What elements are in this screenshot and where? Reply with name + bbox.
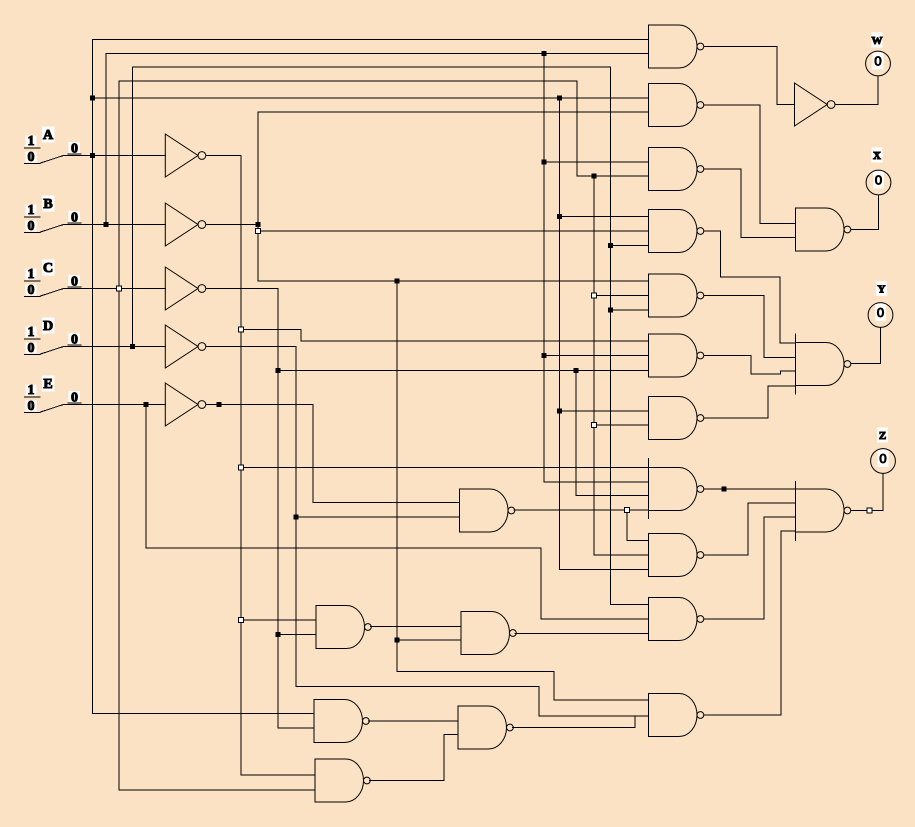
svg-text:0: 0	[879, 451, 886, 466]
node net C at U7 input	[592, 423, 597, 428]
output indicator X	[866, 170, 891, 195]
wire net D vertical x132	[132, 67, 134, 347]
wire net A vertical bus x92	[92, 40, 94, 714]
wire net notE from G5	[206, 405, 460, 503]
nand U2	[649, 84, 704, 127]
node net notD at U12 input	[294, 515, 299, 520]
svg-text:W: W	[872, 35, 883, 47]
node net notA at y620	[239, 618, 244, 623]
svg-text:D: D	[43, 319, 53, 334]
label Z	[877, 427, 888, 442]
wire net notC line y370 to U6 input 3	[278, 370, 649, 372]
svg-text:0: 0	[28, 219, 35, 234]
input switch D	[25, 318, 82, 357]
wire net B vertical x106	[105, 54, 107, 225]
node net notE dot	[217, 402, 222, 407]
wire net C vertical x594	[593, 176, 595, 555]
wire net notA bottom branch to U17 input 1	[241, 774, 315, 776]
wire net U6 output to U19 input 3	[704, 356, 796, 375]
inverter U21 (W output)	[795, 83, 836, 126]
wire net E vertical x541	[540, 548, 542, 619]
wire net E vertical x146	[145, 405, 147, 549]
nand U20 (Z output)	[796, 482, 851, 541]
node net notB at switch	[256, 222, 261, 227]
wire net B top line to U1 input 2	[106, 53, 649, 55]
label X	[872, 147, 883, 162]
node net notA at y329	[239, 327, 244, 332]
nand U4	[649, 210, 704, 253]
wire net notB branch to U14 input 2	[397, 639, 461, 641]
wire net notA branch to U13 input 1	[241, 619, 316, 621]
wire net B vertical x544	[543, 54, 545, 483]
node net D at switch	[130, 344, 135, 349]
svg-text:E: E	[43, 377, 52, 392]
wire net notD bottom jog	[296, 687, 539, 717]
wire net U5 output to U19 input 2	[704, 296, 796, 358]
wire net Z from U20 to indicator	[851, 473, 883, 510]
wire net notB bottom jog	[397, 672, 554, 701]
wire net notB vertical x397	[396, 281, 398, 672]
node net U8out dot	[722, 487, 727, 492]
nand U11	[649, 694, 704, 737]
wire net notA branch to U8 input 1	[241, 467, 649, 469]
output indicator Y	[868, 303, 893, 328]
wire net B branch to U8 input 2	[544, 481, 649, 483]
svg-text:1: 1	[28, 203, 35, 218]
nand U7	[649, 397, 704, 440]
wire net notC branch to U8 input 3	[576, 495, 649, 497]
inverter G3 (NOT C)	[165, 267, 206, 310]
wire net D branch to U10 input 1	[611, 604, 649, 606]
wire net A vertical x559	[559, 98, 561, 570]
wire net E branch to U10 input 2	[541, 618, 649, 620]
nand U13	[316, 606, 371, 649]
nand U9	[649, 534, 704, 577]
wire net D vertical x610	[610, 67, 612, 605]
svg-text:0: 0	[877, 305, 884, 320]
nand U15	[314, 700, 369, 743]
wire net U17 output to U16 input 2	[370, 735, 459, 781]
wire net C vertical x119	[118, 81, 120, 790]
node net A at U4 input	[557, 214, 562, 219]
node net notB at x397	[395, 279, 400, 284]
wire net W from U21 to indicator	[835, 76, 878, 105]
node net notC at x576	[574, 368, 579, 373]
label Y	[876, 281, 887, 296]
svg-text:Y: Y	[878, 284, 886, 296]
wire net U12 output branch to U9 input 1	[627, 510, 649, 541]
wire switch B to inverter G2	[64, 224, 166, 226]
svg-text:0: 0	[874, 54, 881, 69]
node net B at switch	[104, 222, 109, 227]
inverter G2 (NOT B)	[165, 203, 206, 246]
node net A at y98	[90, 96, 95, 101]
wire net U15 output to U16 input 1	[369, 720, 459, 722]
node net C at x594 top	[592, 174, 597, 179]
wire net A branch to U4 input 1	[560, 216, 649, 218]
wire net U13 output to U14 input 1	[371, 626, 462, 628]
nand U6	[649, 334, 704, 377]
svg-text:A: A	[43, 128, 54, 143]
wire net C branch to U9 input 2	[594, 554, 649, 556]
svg-text:1: 1	[28, 325, 35, 340]
wire net U1 output to U21	[704, 47, 795, 105]
inverter G5 (NOT E)	[165, 383, 206, 426]
wire net B branch to U6 input 2	[544, 355, 649, 357]
wire net U14 output to U10 input 3	[515, 633, 649, 635]
node net notC at U13 input	[276, 632, 281, 637]
nand U1	[649, 25, 704, 68]
node net A at U7 input	[557, 409, 562, 414]
nand U10	[649, 598, 704, 641]
svg-text:0: 0	[28, 399, 35, 414]
svg-text:Z: Z	[879, 430, 886, 442]
svg-text:0: 0	[28, 341, 35, 356]
node net C at switch	[117, 286, 122, 291]
wire net C branch to U5 input 2	[594, 295, 649, 297]
wire net notB to U11 input 1	[554, 699, 649, 701]
nand U12	[460, 489, 515, 532]
wire net U9 output to U20 input 2	[704, 503, 796, 555]
node net B at U3 input	[542, 160, 547, 165]
wire net notD to U11 input 2	[539, 715, 649, 717]
wire switch C to inverter G3	[64, 288, 166, 290]
wire net notB top line to U2 input 2	[258, 111, 649, 113]
inverter G4 (NOT D)	[165, 325, 206, 368]
wire net E line y548	[146, 547, 541, 549]
wire net notB from G2 to vertical x258	[206, 224, 258, 226]
wire net U16 output to U11 input 2 join	[513, 716, 636, 728]
wire net A top line to U1 input 1	[93, 39, 649, 41]
wire net notB line y231 to U4 input 2	[258, 230, 649, 232]
wire net C line to U3 input 2	[577, 175, 649, 177]
wire net A branch to U9 input 3	[560, 569, 649, 571]
wire net D top line y67	[133, 66, 611, 68]
wire net U12 output to U8 input 4	[514, 509, 649, 511]
wire net notC branch to U13 input 2	[278, 634, 316, 636]
input switch A	[25, 127, 82, 166]
wire net notB bottom line to U5 input 1	[258, 280, 649, 282]
wire switch A to inverter G1	[64, 155, 166, 157]
input switch B	[25, 196, 82, 235]
wire net U10 output to U20 input 3	[704, 517, 796, 619]
nand U16	[458, 706, 513, 749]
svg-text:0: 0	[28, 150, 35, 165]
wire net notB vertical x258	[257, 112, 259, 281]
input switch C	[25, 260, 82, 299]
node net B at x544 top	[542, 51, 547, 56]
wire net A line y98 to U2 input 1	[93, 97, 649, 99]
wire net U4 output to U19 input 1	[704, 231, 796, 343]
svg-text:1: 1	[28, 383, 35, 398]
node net E at switch	[144, 402, 149, 407]
wire net notD from G4 to vertical x296	[206, 346, 296, 348]
node net U12out tap	[625, 508, 630, 513]
wire net B branch to U3 input 1	[544, 161, 649, 163]
svg-text:0: 0	[28, 283, 35, 298]
inverter G1 (NOT A)	[165, 134, 206, 177]
wire net A branch to U7 input 1	[560, 410, 649, 412]
wire net notC vertical x278	[277, 289, 279, 729]
svg-text:C: C	[43, 261, 53, 276]
svg-text:1: 1	[28, 134, 35, 149]
input switch E	[25, 376, 82, 415]
output indicator W	[866, 51, 891, 76]
wire net notC vertical x576	[575, 371, 577, 496]
node net B at U6 input	[542, 353, 547, 358]
wire net notA jog to U6 input 1	[241, 330, 649, 342]
node net C at U5 input	[592, 293, 597, 298]
node net notC at y370	[276, 368, 281, 373]
nand U19 (Y output)	[796, 334, 851, 394]
wire net notD vertical x296	[295, 347, 297, 687]
wire net D branch to U5 input 3	[611, 309, 649, 311]
nand U14	[461, 612, 516, 655]
node net notB at U14 input	[395, 638, 400, 643]
wire net C bottom branch to U17 input 2	[119, 789, 315, 791]
wire net U3 output to U18 input 2	[704, 169, 796, 238]
wire net D branch to U4 input 3	[611, 245, 649, 247]
node net A at switch	[90, 153, 95, 158]
svg-text:1: 1	[28, 267, 35, 282]
wire net notC from G3 to vertical x278	[206, 288, 278, 290]
node net D at U4 input	[608, 243, 613, 248]
node net D at U5 input	[608, 308, 613, 313]
output indicator Z	[871, 449, 896, 474]
wire net C vertical x577	[576, 81, 578, 176]
wire net X from U18 to indicator	[851, 195, 879, 230]
node net notA at y467	[239, 465, 244, 470]
wire net U7 output to U19 input 4	[704, 386, 796, 418]
wire switch E to inverter G5	[64, 404, 166, 406]
nand U8	[649, 459, 704, 519]
wire net notD branch to U12 input 2	[296, 516, 460, 518]
wire net U2 output to U18 input 1	[704, 105, 796, 224]
wire net notC bottom branch to U15 input 2	[278, 727, 314, 729]
label W	[872, 32, 883, 47]
nand U17	[315, 759, 370, 802]
wire net U8 output to U20 input 1	[704, 488, 796, 490]
node net Z dot	[867, 508, 872, 513]
nand U5	[649, 274, 704, 317]
node net A at x559 y98	[557, 96, 562, 101]
nand U18 (X output)	[796, 208, 851, 251]
wire net notA vertical x241	[240, 156, 242, 776]
svg-text:0: 0	[875, 173, 882, 188]
wire net Y from U19 to indicator	[851, 327, 881, 363]
svg-text:B: B	[43, 197, 52, 212]
wire net C branch to U7 input 2	[594, 424, 649, 426]
nand U3	[649, 148, 704, 191]
svg-text:X: X	[873, 150, 881, 162]
wire net U11 output to U20 input 4	[704, 531, 796, 715]
wire switch D to inverter G4	[64, 346, 166, 348]
wire net C top line y81	[119, 80, 577, 82]
wire net notA from G1 to vertical x241	[206, 155, 241, 157]
node net notB tap y231	[256, 229, 261, 234]
wire net A bottom branch to U15 input 1	[93, 713, 315, 715]
